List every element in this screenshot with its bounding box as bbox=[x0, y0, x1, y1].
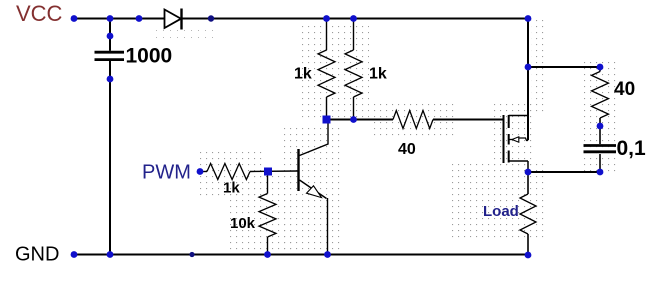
wire 1k pullup leads bbox=[326, 19, 328, 51]
resistor Load bbox=[520, 194, 536, 234]
node 1k left top bbox=[323, 15, 330, 22]
node base junction (square) bbox=[323, 116, 331, 124]
node 10k bottom bbox=[264, 251, 271, 258]
node top T-junction bbox=[107, 15, 114, 22]
node GND mid joint bbox=[189, 252, 194, 257]
wire base node row bbox=[327, 119, 394, 121]
node C1 bottom bbox=[107, 76, 114, 83]
node snubber mid bbox=[597, 123, 604, 130]
node emitter bottom bbox=[324, 251, 331, 258]
node diode anode bbox=[136, 15, 143, 22]
wire left vertical from VCC rail to GND rail through C1 bbox=[109, 19, 111, 51]
node 1k right top bbox=[350, 15, 357, 22]
svg-text:40: 40 bbox=[614, 79, 635, 100]
svg-text:10k: 10k bbox=[230, 215, 256, 232]
node 1k right bottom bbox=[350, 116, 357, 123]
svg-text:0,1: 0,1 bbox=[617, 137, 647, 160]
resistor 1k left pullup bbox=[318, 50, 335, 97]
svg-text:1k: 1k bbox=[294, 66, 312, 83]
resistor 40 gate bbox=[393, 111, 433, 129]
svg-text:Load: Load bbox=[483, 203, 519, 220]
svg-text:40: 40 bbox=[398, 141, 416, 158]
resistor 1k PWM bbox=[207, 164, 250, 180]
MOSFET M1 bbox=[503, 115, 505, 163]
node load bottom bbox=[525, 252, 532, 259]
wire drain tap to snubber bbox=[528, 66, 600, 68]
node C1 top bbox=[107, 33, 114, 40]
resistor 40 snubber bbox=[592, 72, 609, 119]
wire source node to load bbox=[527, 172, 529, 194]
node source bbox=[525, 169, 532, 176]
wire snubber column bbox=[599, 67, 601, 72]
wire drain vertical bbox=[527, 19, 529, 141]
wire top rail VCC bbox=[74, 18, 165, 20]
capacitor 1000 bbox=[95, 51, 125, 54]
wire 10k column bbox=[267, 172, 269, 194]
wire gate line bbox=[433, 119, 503, 121]
resistor 10k bbox=[259, 194, 276, 238]
node diode cathode bbox=[208, 15, 214, 21]
node snubber top bbox=[597, 64, 604, 71]
node drain tap bbox=[525, 64, 532, 71]
node top right corner bbox=[525, 15, 532, 22]
capacitor 0,1 bbox=[584, 144, 617, 147]
wire PWM row bbox=[200, 171, 207, 173]
svg-text:1k: 1k bbox=[369, 66, 387, 83]
wire source node to snubber bottom bbox=[528, 171, 600, 173]
svg-text:PWM: PWM bbox=[142, 162, 191, 184]
transistor Q1 NPN bbox=[297, 149, 299, 191]
diode D1 bbox=[165, 10, 182, 29]
wire bottom rail GND bbox=[74, 254, 528, 256]
resistor 1k right pullup bbox=[345, 50, 362, 97]
node GND T-junction bbox=[107, 251, 114, 258]
node VCC input bbox=[71, 15, 78, 22]
node PWM input bbox=[197, 168, 204, 175]
svg-text:VCC: VCC bbox=[16, 1, 63, 26]
svg-text:1k: 1k bbox=[223, 180, 240, 197]
node snubber bottom bbox=[597, 169, 604, 176]
svg-text:GND: GND bbox=[15, 244, 59, 266]
node PWM junction (square) bbox=[264, 168, 272, 176]
node GND left bbox=[71, 251, 78, 258]
svg-text:1000: 1000 bbox=[126, 45, 173, 68]
